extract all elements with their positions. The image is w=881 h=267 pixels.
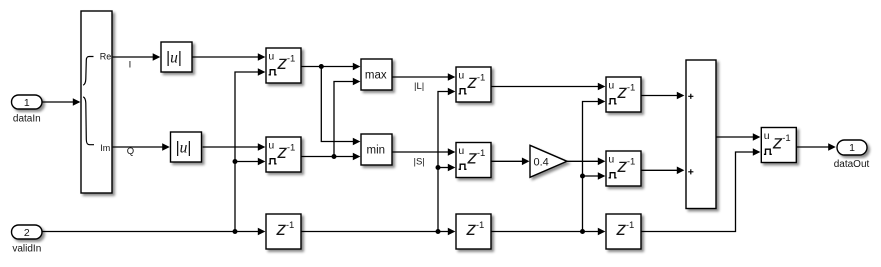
outport 1 dataOut	[837, 140, 867, 155]
delay block D6	[606, 151, 641, 186]
wire branch to Delay6 enable	[583, 172, 606, 180]
svg-text:1: 1	[849, 142, 855, 154]
wire Delay4 to Gain	[491, 158, 529, 166]
wire Delay3 to Delay5 u	[491, 83, 605, 91]
unit delay UD3	[606, 214, 641, 249]
wire Re to Abs1	[113, 53, 161, 61]
wire Delay5 to Sum in1	[641, 92, 684, 100]
svg-text:Im: Im	[100, 143, 110, 153]
delay block D5	[606, 77, 641, 112]
svg-text:validIn: validIn	[12, 244, 41, 255]
wire Abs1 to Delay1 u	[192, 53, 265, 61]
svg-text:1: 1	[24, 97, 30, 109]
wire UnitDelay2 to UnitDelay3	[491, 228, 605, 236]
junction dot node	[233, 159, 238, 164]
gain block 0.4	[530, 145, 567, 177]
junction dot node	[319, 64, 324, 69]
delay block D1	[266, 48, 301, 83]
sum block	[686, 60, 716, 209]
wire Delay2 to min in2	[301, 153, 360, 161]
max block	[361, 59, 392, 90]
wire Delay1 to max in1	[301, 63, 360, 71]
wire Im to Abs2	[113, 143, 170, 151]
junction dot node	[580, 229, 585, 234]
wire branch to min in1	[321, 67, 360, 146]
svg-text:max: max	[365, 69, 387, 81]
svg-text:2: 2	[24, 227, 30, 239]
delay block D4	[456, 143, 491, 178]
wire branch to max in2	[334, 78, 360, 157]
svg-text:dataIn: dataIn	[13, 113, 41, 124]
wire validIn to UnitDelay1	[42, 228, 265, 236]
svg-text:dataOut: dataOut	[834, 159, 870, 170]
svg-text:0.4: 0.4	[534, 157, 549, 169]
wire dataIn to complex-split	[42, 98, 80, 106]
wire Sum to Delay7 u	[716, 133, 760, 141]
svg-text:Q: Q	[127, 146, 134, 157]
abs block Abs1	[161, 42, 192, 72]
unit delay UD1	[266, 214, 301, 249]
complex to real-imag block	[81, 11, 112, 193]
wire Delay7 to dataOut	[796, 143, 835, 151]
junction dot node	[580, 174, 585, 179]
inport 2 validIn	[12, 225, 43, 239]
abs block Abs2	[171, 132, 202, 162]
svg-text:min: min	[367, 144, 386, 156]
delay block D2	[266, 137, 301, 172]
svg-text:Re: Re	[100, 51, 112, 61]
wire min to Delay4 u, net S	[392, 148, 455, 156]
inport 1 dataIn	[12, 95, 43, 109]
svg-text:|S|: |S|	[414, 156, 425, 167]
wire Gain to Delay6 u	[567, 158, 605, 166]
delay block D7	[761, 128, 796, 163]
junction dot node	[332, 154, 337, 159]
svg-text:|L|: |L|	[414, 81, 424, 92]
unit delay UD2	[456, 214, 491, 249]
wire riser to Delay5 enable	[583, 98, 606, 232]
junction dot node	[436, 165, 441, 170]
junction dot node	[436, 229, 441, 234]
wire UnitDelay1 to UnitDelay2	[301, 228, 455, 236]
svg-text:I: I	[129, 60, 132, 71]
wire riser to Delay1 enable	[235, 68, 265, 231]
wire branch to Delay2 enable	[235, 158, 265, 166]
junction dot node	[233, 229, 238, 234]
min block	[361, 134, 392, 165]
wire max to Delay3 u, net L	[392, 73, 455, 81]
delay block D3	[456, 67, 491, 102]
wire UnitDelay3 to Delay7 enable	[641, 148, 760, 231]
wire Delay6 to Sum in2	[641, 167, 684, 175]
wire Abs2 to Delay2 u	[203, 143, 266, 151]
wire riser to Delay3 enable	[438, 88, 455, 232]
wire branch to Delay4 enable	[438, 164, 455, 172]
